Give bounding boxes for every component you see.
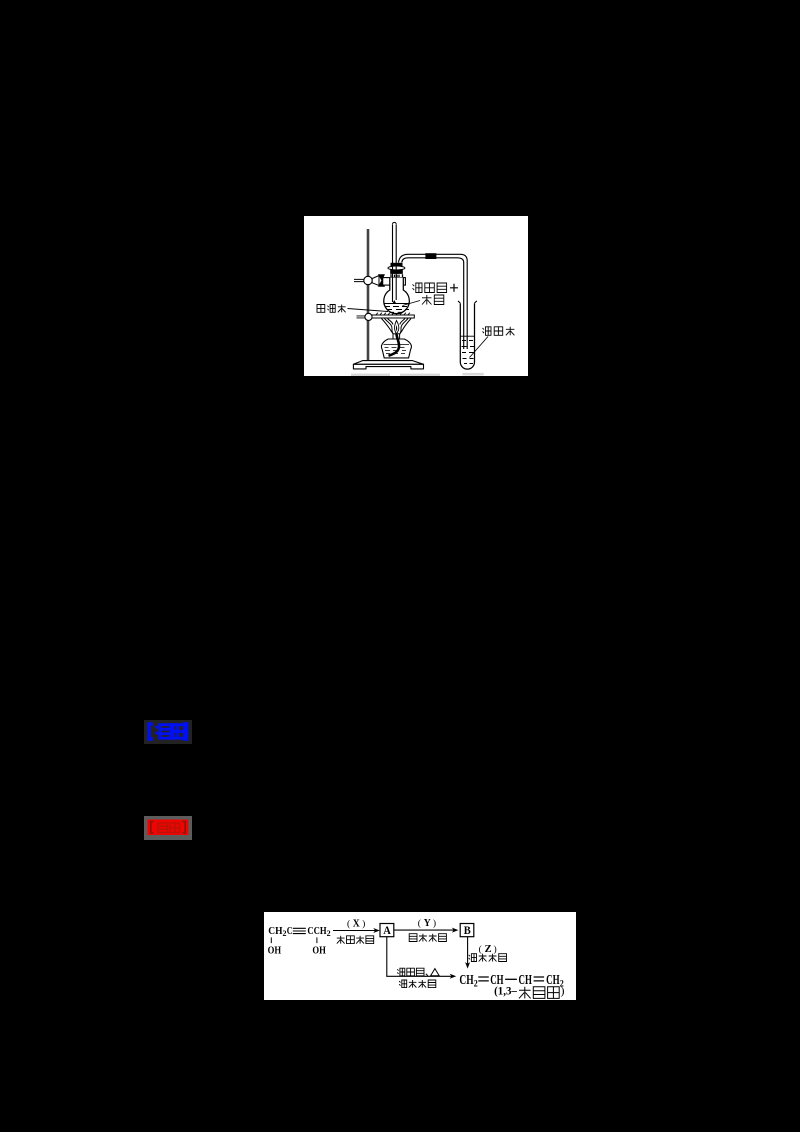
label 乙醇 — [422, 295, 432, 305]
stopper band 1 — [391, 263, 403, 267]
branch from A: 浓硫酸 △ 消去反应 — [387, 937, 453, 977]
stopper flange — [388, 266, 405, 270]
clamp bowtie nut — [379, 275, 384, 287]
svg-text:(: ( — [479, 944, 482, 955]
flame — [382, 319, 412, 335]
flask liquid — [384, 303, 409, 305]
blue label box — [144, 720, 192, 744]
glass tube (vertical) — [393, 225, 397, 303]
lamp liquid dashes — [384, 345, 410, 354]
base shadow marks — [351, 374, 390, 376]
stopper band 2 — [390, 270, 403, 274]
apparatus diagram panel — [304, 216, 528, 376]
clamp knob circle — [364, 276, 372, 284]
svg-text:CH: CH — [546, 973, 560, 988]
stopper bottom ticks — [391, 274, 403, 277]
svg-text:): ) — [362, 919, 365, 930]
lamp body — [381, 339, 411, 358]
arrow (X) 加成反应 — [333, 930, 377, 932]
box A — [380, 924, 394, 937]
test tube — [460, 304, 474, 369]
svg-text:(: ( — [418, 918, 421, 929]
leader line to test tube liquid — [470, 337, 489, 358]
svg-text:X: X — [353, 919, 361, 930]
label 碎瓷片 — [317, 305, 325, 313]
svg-text:OH: OH — [268, 945, 282, 957]
rubber connector — [425, 253, 436, 259]
svg-text:CH: CH — [519, 973, 532, 988]
svg-text:OH: OH — [312, 945, 326, 957]
label 浓溴水 — [483, 327, 492, 336]
clamp left rod — [354, 279, 364, 281]
svg-text:2: 2 — [327, 929, 331, 938]
reaction scheme panel — [264, 912, 576, 1000]
svg-text:A: A — [383, 923, 391, 937]
svg-text:): ) — [433, 918, 436, 929]
svg-text:): ) — [561, 984, 565, 998]
gauze plate — [372, 315, 414, 318]
stand base — [353, 361, 423, 369]
leader line to flask — [403, 301, 421, 306]
clamp bar — [383, 278, 406, 286]
lamp cap — [393, 334, 400, 339]
svg-text:Z: Z — [485, 944, 492, 955]
delivery tube — [399, 254, 468, 349]
stand rod — [367, 229, 370, 361]
bonds to OH — [271, 937, 317, 943]
box B — [460, 924, 474, 937]
arrow (Y) 取代反应 — [394, 929, 456, 931]
clamp jaw trapezoid — [372, 276, 379, 286]
svg-text:2: 2 — [474, 980, 478, 990]
leader line to gauze — [348, 309, 389, 312]
svg-text:C: C — [287, 925, 293, 937]
arrow (Z) 消去反应 — [467, 937, 469, 966]
lamp wick — [389, 334, 400, 356]
svg-text:CH: CH — [268, 925, 283, 937]
svg-text:B: B — [464, 923, 471, 937]
flask — [384, 278, 410, 314]
ring clamp rod — [357, 316, 365, 318]
gauze hatch / chips — [376, 313, 410, 315]
test tube liquid — [460, 335, 474, 337]
svg-text:CCH: CCH — [307, 925, 327, 937]
svg-text:(: ( — [347, 919, 350, 930]
svg-text:Y: Y — [424, 918, 432, 929]
svg-text:): ) — [494, 944, 497, 955]
ring clamp circle — [365, 313, 372, 320]
svg-text:(1,3–: (1,3– — [494, 984, 518, 998]
label 浓硫酸+ — [304, 216, 528, 376]
svg-text:CH: CH — [459, 973, 473, 988]
red label box — [144, 816, 192, 840]
